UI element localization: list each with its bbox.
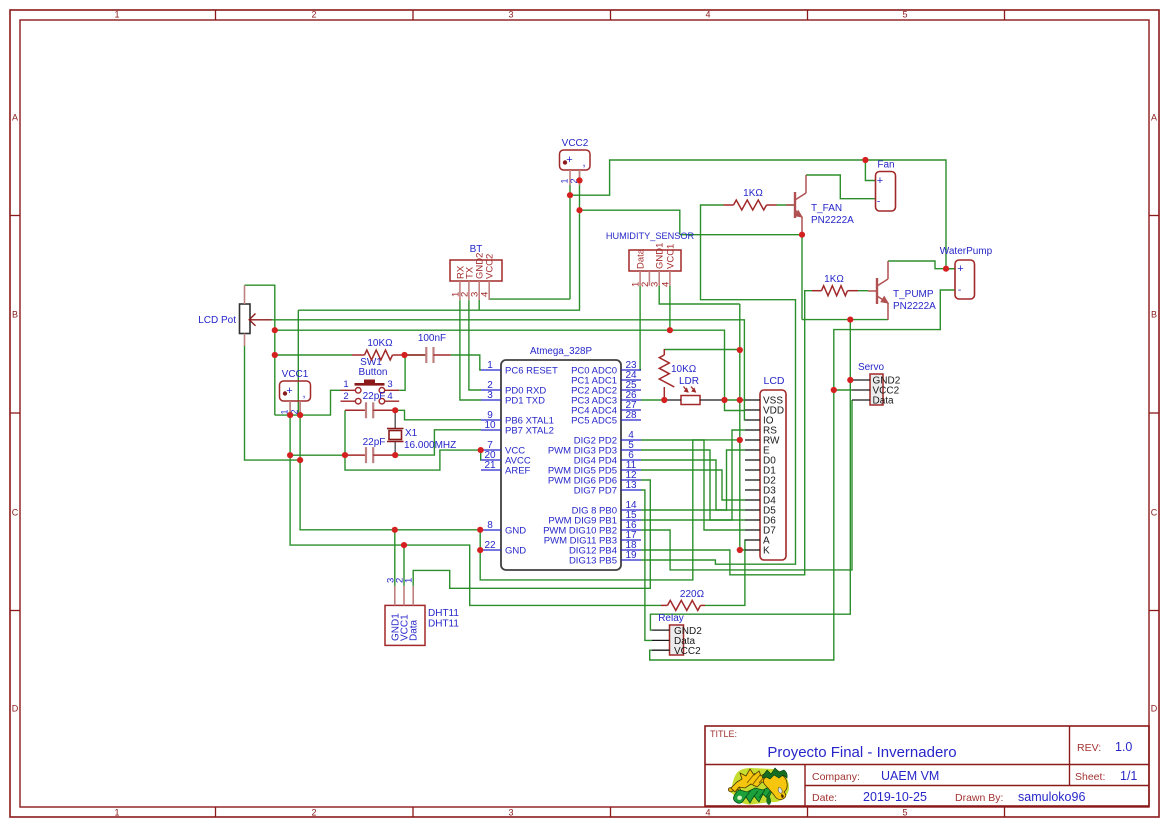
svg-text:2: 2 <box>311 808 316 818</box>
svg-text:VCC1: VCC1 <box>282 369 309 380</box>
svg-text:VCC2: VCC2 <box>674 646 701 657</box>
svg-text:3: 3 <box>650 282 661 287</box>
svg-text:Proyecto Final - Invernadero: Proyecto Final - Invernadero <box>767 744 956 761</box>
svg-text:1/1: 1/1 <box>1120 769 1137 783</box>
svg-text:AREF: AREF <box>505 465 531 476</box>
svg-text:D: D <box>1151 704 1158 714</box>
svg-text:+: + <box>566 154 572 166</box>
svg-text:Servo: Servo <box>858 362 885 373</box>
svg-text:-: - <box>958 285 961 296</box>
svg-text:2: 2 <box>311 10 316 20</box>
svg-text:Data: Data <box>636 248 647 269</box>
svg-text:B: B <box>12 310 18 320</box>
svg-text:Atmega_328P: Atmega_328P <box>530 346 593 357</box>
svg-text:Date:: Date: <box>812 792 837 804</box>
svg-text:4: 4 <box>387 391 392 402</box>
svg-text:1: 1 <box>487 360 493 371</box>
svg-text:A: A <box>12 113 18 123</box>
svg-text:DIG7 PD7: DIG7 PD7 <box>574 485 617 496</box>
svg-text:3: 3 <box>508 10 513 20</box>
svg-text:PN2222A: PN2222A <box>811 215 854 226</box>
svg-text:3: 3 <box>387 379 392 390</box>
svg-text:3: 3 <box>487 390 493 401</box>
svg-text:10KΩ: 10KΩ <box>671 364 697 375</box>
svg-text:VCC2: VCC2 <box>562 138 589 149</box>
svg-text:,: , <box>302 388 305 400</box>
svg-text:PN2222A: PN2222A <box>893 301 936 312</box>
svg-text:VCC1: VCC1 <box>665 244 676 269</box>
svg-text:+: + <box>877 175 883 187</box>
svg-text:1: 1 <box>560 178 570 183</box>
svg-text:HUMIDITY_SENSOR: HUMIDITY_SENSOR <box>606 231 695 241</box>
svg-text:1.0: 1.0 <box>1115 740 1132 754</box>
svg-text:LCD Pot: LCD Pot <box>198 315 236 326</box>
svg-text:4: 4 <box>705 808 710 818</box>
svg-text:2019-10-25: 2019-10-25 <box>863 790 927 804</box>
svg-text:D: D <box>12 704 19 714</box>
svg-text:28: 28 <box>625 410 637 421</box>
svg-text:4: 4 <box>660 282 671 287</box>
svg-text:T_FAN: T_FAN <box>811 203 842 214</box>
svg-text:Drawn By:: Drawn By: <box>955 792 1003 804</box>
svg-text:13: 13 <box>625 480 637 491</box>
svg-text:1: 1 <box>114 10 119 20</box>
svg-text:VCC2: VCC2 <box>485 254 496 279</box>
svg-text:,: , <box>582 157 585 169</box>
svg-text:DIG13 PB5: DIG13 PB5 <box>569 555 617 566</box>
svg-text:22pF: 22pF <box>363 391 386 402</box>
svg-text:220Ω: 220Ω <box>680 589 705 600</box>
svg-text:WaterPump: WaterPump <box>940 246 993 257</box>
svg-text:8: 8 <box>487 520 493 531</box>
svg-text:Relay: Relay <box>658 613 684 624</box>
svg-text:4: 4 <box>705 10 710 20</box>
svg-text:2: 2 <box>343 391 348 402</box>
svg-text:Data: Data <box>873 396 895 407</box>
svg-text:K: K <box>763 546 770 557</box>
svg-text:C: C <box>1151 508 1158 518</box>
svg-text:GND1: GND1 <box>655 243 666 269</box>
svg-text:LCD: LCD <box>763 375 784 387</box>
svg-text:19: 19 <box>625 550 637 561</box>
svg-text:Button: Button <box>359 367 388 378</box>
svg-text:GND: GND <box>505 545 526 556</box>
svg-text:PD1 TXD: PD1 TXD <box>505 395 545 406</box>
svg-text:X1: X1 <box>405 428 418 439</box>
svg-text:REV:: REV: <box>1077 742 1101 754</box>
svg-text:4: 4 <box>480 292 491 297</box>
svg-text:5: 5 <box>902 10 907 20</box>
svg-text:100nF: 100nF <box>418 333 446 344</box>
svg-text:-: - <box>877 197 880 208</box>
svg-text:LDR: LDR <box>679 376 699 387</box>
svg-text:1: 1 <box>404 578 415 583</box>
svg-text:Data: Data <box>409 619 420 641</box>
svg-text:1: 1 <box>343 379 348 390</box>
svg-text:C: C <box>12 508 19 518</box>
svg-text:PC5 ADC5: PC5 ADC5 <box>571 415 617 426</box>
svg-text:DHT11: DHT11 <box>428 608 459 619</box>
svg-text:+: + <box>957 263 963 275</box>
svg-text:1: 1 <box>114 808 119 818</box>
svg-text:T_PUMP: T_PUMP <box>893 289 934 300</box>
svg-text:PC6 RESET: PC6 RESET <box>505 365 558 376</box>
svg-text:5: 5 <box>902 808 907 818</box>
svg-text:3: 3 <box>508 808 513 818</box>
svg-text:1KΩ: 1KΩ <box>824 274 844 285</box>
svg-text:21: 21 <box>484 460 496 471</box>
svg-text:10: 10 <box>484 420 496 431</box>
svg-text:Sheet:: Sheet: <box>1075 771 1105 783</box>
svg-text:DHT11: DHT11 <box>428 619 459 630</box>
svg-text:1KΩ: 1KΩ <box>743 188 763 199</box>
svg-text:22: 22 <box>484 540 496 551</box>
svg-text:UAEM VM: UAEM VM <box>881 769 939 783</box>
svg-text:B: B <box>1151 310 1157 320</box>
svg-text:BT: BT <box>470 244 483 255</box>
svg-text:TITLE:: TITLE: <box>710 729 737 739</box>
svg-text:16.000MHZ: 16.000MHZ <box>404 440 456 451</box>
svg-text:Fan: Fan <box>877 160 894 171</box>
svg-text:+: + <box>286 385 292 397</box>
svg-text:10KΩ: 10KΩ <box>367 338 393 349</box>
svg-text:Company:: Company: <box>812 771 860 783</box>
svg-text:samuloko96: samuloko96 <box>1018 790 1085 804</box>
svg-text:22pF: 22pF <box>363 437 386 448</box>
svg-text:GND: GND <box>505 525 526 536</box>
svg-text:PB7 XTAL2: PB7 XTAL2 <box>505 425 554 436</box>
svg-text:A: A <box>1151 113 1157 123</box>
